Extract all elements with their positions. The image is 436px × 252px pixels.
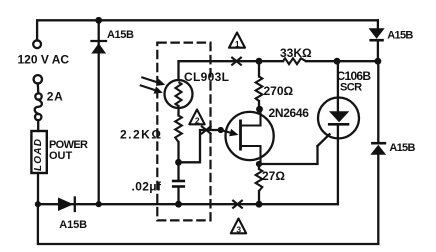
wire RC node to emitter (179, 130, 221, 162)
svg-text:A15B: A15B (107, 29, 134, 41)
svg-text:2N2646: 2N2646 (269, 106, 310, 120)
label 270Ohm (264, 84, 294, 98)
dashed enclosure box (157, 43, 210, 221)
node B1 (256, 161, 262, 167)
wire top rail (37, 20, 378, 40)
wire diode D1 column (98, 20, 100, 204)
label 33KOhm (280, 46, 312, 60)
label A15B top-right (387, 29, 413, 41)
label 2N2646 (269, 106, 310, 120)
node capacitor bottom (175, 201, 182, 208)
label A15B bottom (59, 219, 87, 231)
node bottom D1 (96, 201, 102, 207)
wire terminal to fuse (37, 84, 40, 94)
svg-text:OUT: OUT (49, 150, 73, 162)
wire fuse to load (37, 120, 39, 131)
X mark on gate rail (231, 57, 241, 65)
wire photocell top to gate rail (179, 61, 260, 80)
node right rail (375, 58, 382, 65)
node gate rail left (256, 58, 263, 65)
label 120 V AC (18, 53, 70, 67)
diode A15B right (pointing up) (370, 61, 386, 155)
svg-text:2A: 2A (47, 90, 64, 104)
light arrow 1 (141, 77, 165, 86)
X mark on emitter wire (201, 126, 211, 134)
svg-text:.02μf: .02μf (132, 180, 163, 194)
label A15B left (107, 29, 134, 41)
transistor 2N2646 UJT (221, 109, 274, 164)
X mark on bottom rail (232, 200, 242, 208)
svg-text:2: 2 (195, 116, 200, 126)
diode A15B left (pointing up) (91, 41, 106, 54)
terminal 120VAC top (33, 40, 41, 48)
label LOAD (33, 138, 44, 171)
photocell CL903L (165, 80, 193, 108)
svg-text:27Ω: 27Ω (262, 169, 285, 183)
thyristor C106B SCR (318, 61, 359, 204)
resistor 27 (256, 164, 263, 204)
svg-text:SCR: SCR (340, 82, 362, 94)
diode A15B top-right (pointing down) (369, 20, 385, 61)
load box (31, 131, 46, 173)
warning triangle 1 (229, 33, 245, 49)
warning triangle 3 (231, 219, 246, 235)
svg-text:A15B: A15B (389, 142, 415, 154)
label CL903L (184, 70, 229, 84)
svg-text:CL903L: CL903L (184, 70, 229, 84)
node bottom-left (35, 201, 41, 207)
svg-text:A15B: A15B (387, 29, 413, 41)
svg-text:2.2KΩ: 2.2KΩ (120, 128, 162, 142)
wire outer return loop (38, 155, 378, 244)
wire load to bottom rail (37, 173, 39, 204)
node SCR anode (334, 58, 341, 65)
light arrow 2 (140, 85, 163, 94)
warning triangle 2 (189, 110, 204, 126)
label 27Ohm (262, 169, 285, 183)
svg-text:1: 1 (235, 39, 240, 49)
node RC junction (175, 159, 182, 166)
wire B1 to SCR gate (259, 134, 330, 164)
node 27 bottom (256, 201, 263, 208)
node emitter (218, 127, 224, 133)
svg-text:270Ω: 270Ω (264, 84, 294, 98)
label .02uf (132, 180, 163, 194)
svg-text:3: 3 (236, 225, 241, 235)
fuse F1 2A (35, 93, 42, 120)
label 2A (47, 90, 64, 104)
svg-text:LOAD: LOAD (33, 138, 44, 171)
label C106B SCR (337, 69, 372, 94)
resistor 33K (259, 58, 337, 64)
capacitor .02uf (172, 162, 185, 204)
wire bottom rail (38, 203, 338, 205)
terminal 120VAC bottom (34, 75, 42, 83)
diode A15B bottom (on bottom rail, pointing right) (58, 198, 75, 212)
resistor 270 (256, 61, 263, 109)
node B2 (256, 106, 263, 113)
node top D1 (95, 17, 102, 24)
label POWER OUT (49, 139, 88, 162)
svg-text:33KΩ: 33KΩ (280, 46, 312, 60)
svg-text:A15B: A15B (59, 219, 87, 231)
label 2.2KOhm (120, 128, 162, 142)
wire 33K node to right rail (337, 60, 378, 62)
svg-text:120 V AC: 120 V AC (18, 53, 70, 67)
label A15B right (389, 142, 415, 154)
resistor 2.2K (175, 106, 182, 162)
